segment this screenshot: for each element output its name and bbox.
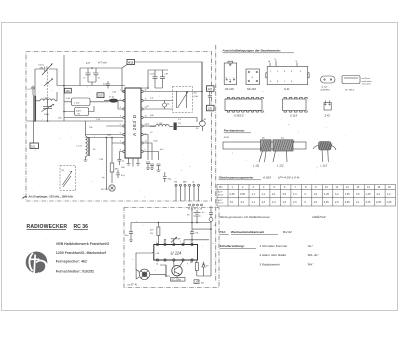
svg-text:101: 101 xyxy=(31,144,36,148)
boxed terminal 101 xyxy=(30,143,39,149)
svg-text:“RA- AL”: “RA- AL” xyxy=(307,253,320,257)
boxed label 125 xyxy=(207,105,215,111)
wire from label to cap rail xyxy=(122,65,127,69)
svg-text:1,35: 1,35 xyxy=(345,193,350,196)
variable capacitor C104 xyxy=(42,104,55,116)
IC package S41 outline xyxy=(266,59,309,91)
svg-text:4,5: 4,5 xyxy=(356,193,360,196)
svg-text:9: 9 xyxy=(145,150,146,152)
electrolytic right top xyxy=(209,206,217,229)
svg-text:Fernsprecher: 462: Fernsprecher: 462 xyxy=(56,260,87,264)
svg-text:2: 2 xyxy=(164,242,165,244)
svg-text:M38: M38 xyxy=(128,60,134,64)
svg-text:Bst 72: Bst 72 xyxy=(218,202,223,205)
svg-text:1,25: 1,25 xyxy=(387,201,392,204)
ground osc xyxy=(84,160,88,162)
resistor R32 right xyxy=(190,260,198,276)
oscillator coil L121 xyxy=(77,121,90,160)
svg-text:G: G xyxy=(252,77,254,79)
wire rail 3 xyxy=(184,240,209,245)
svg-text:einsetzen: einsetzen xyxy=(362,83,372,86)
F31 dashed frame xyxy=(124,208,219,288)
IF box 2407 xyxy=(75,108,89,116)
winding lead lines xyxy=(259,151,287,162)
tuner loop wires xyxy=(35,69,57,121)
svg-text:(Ob): (Ob) xyxy=(194,96,199,98)
terminal circles xyxy=(189,204,191,206)
winding L112 xyxy=(273,140,294,151)
svg-text:F 10: F 10 xyxy=(110,97,115,99)
svg-text:4,3: 4,3 xyxy=(262,201,266,204)
IC pins bottom xyxy=(156,259,158,261)
svg-text:5: 5 xyxy=(120,124,121,126)
transistor package SF126 outline xyxy=(224,61,237,91)
capacitor 22n xyxy=(103,81,110,89)
DIP package A283D outline xyxy=(225,97,263,117)
svg-text:A 283: A 283 xyxy=(262,176,271,180)
svg-text:“RA”: “RA” xyxy=(307,263,314,267)
buzzer B2 xyxy=(194,280,204,285)
scan curl mark xyxy=(23,197,28,199)
ferrite rod xyxy=(223,138,306,149)
svg-text:Schalterstellung:: Schalterstellung: xyxy=(220,244,245,248)
svg-text:Bst 62: Bst 62 xyxy=(218,193,223,196)
svg-text:6: 6 xyxy=(120,133,121,135)
svg-text:Ferritantenne:: Ferritantenne: xyxy=(224,129,245,133)
IF transformer dashed box xyxy=(173,86,199,112)
pin numbers IC right xyxy=(145,90,147,152)
svg-text:2 Alarm über Radio: 2 Alarm über Radio xyxy=(259,253,287,257)
varactor circle xyxy=(163,101,171,110)
resistor R31 xyxy=(150,223,160,245)
svg-text:Bst 62: Bst 62 xyxy=(283,230,292,234)
junction dots sub xyxy=(158,222,160,224)
svg-text:4,25: 4,25 xyxy=(324,201,329,204)
IC U114 body xyxy=(154,243,198,261)
svg-text:1,25: 1,25 xyxy=(324,193,329,196)
boxed label 124 xyxy=(207,86,215,92)
wire long vertical xyxy=(63,55,65,121)
svg-text:4,15: 4,15 xyxy=(366,201,371,204)
svg-text:2,45: 2,45 xyxy=(230,193,235,196)
transistor T1 xyxy=(101,185,115,191)
wires IC right connections xyxy=(143,91,202,93)
svg-text:2,1: 2,1 xyxy=(356,201,360,204)
svg-text:F31:: F31: xyxy=(220,230,226,234)
svg-text:105: 105 xyxy=(98,94,103,98)
svg-text:1: 1 xyxy=(120,90,121,92)
svg-text:10: 10 xyxy=(145,141,147,143)
svg-text:Fernschreiber: 016252: Fernschreiber: 016252 xyxy=(56,270,94,274)
capacitor C121 xyxy=(160,70,169,88)
svg-text:1,15: 1,15 xyxy=(366,193,371,196)
svg-text:Uᵁ= 4,5V ± 5 %: Uᵁ= 4,5V ± 5 % xyxy=(278,176,300,180)
svg-text:Anschlußbelegungen der Bauelem: Anschlußbelegungen der Bauelemente: xyxy=(222,49,281,53)
svg-text:C120: C120 xyxy=(150,74,156,76)
wire osc rail xyxy=(86,138,124,191)
wire right vertical xyxy=(197,229,211,276)
svg-text:mit Nase: mit Nase xyxy=(362,77,371,80)
transistor SC236d xyxy=(171,261,186,281)
svg-text:13: 13 xyxy=(145,116,147,118)
wires speaker xyxy=(136,252,166,274)
wires to IF boxes xyxy=(64,102,109,112)
variable inductor L101 arrow xyxy=(44,79,53,87)
pot arrow above pin3 xyxy=(171,237,181,244)
svg-text:2,35: 2,35 xyxy=(376,201,381,204)
svg-text:A 283 D: A 283 D xyxy=(233,114,244,118)
gang dashed link xyxy=(47,72,49,104)
svg-text:cu 07- 41: cu 07- 41 xyxy=(128,284,139,287)
coil L113 xyxy=(313,142,336,163)
svg-text:2: 2 xyxy=(120,99,121,101)
capacitor C120 xyxy=(150,70,158,88)
svg-text:11: 11 xyxy=(145,134,147,136)
transistor T2 right xyxy=(200,121,206,131)
connector pin row Kl xyxy=(174,181,200,202)
svg-text:124: 124 xyxy=(208,87,213,91)
IC bottom stubs xyxy=(129,158,139,167)
wire mid rail xyxy=(57,85,125,87)
svg-text:SC 786 d: SC 786 d xyxy=(345,90,355,92)
diode D31 xyxy=(202,262,209,272)
svg-text:9: 9 xyxy=(187,264,188,266)
DIP package U114 outline xyxy=(283,97,308,117)
wire bottom rail xyxy=(160,265,170,276)
svg-text:1: 1 xyxy=(156,242,157,244)
capacitor 1n mid xyxy=(117,154,125,165)
capacitor C32 with ground xyxy=(125,223,133,242)
svg-text:1,1: 1,1 xyxy=(252,201,256,204)
HFO logo xyxy=(26,251,48,273)
capacitor C110 xyxy=(83,68,91,82)
capacitors under IC xyxy=(146,162,161,170)
svg-text:SF 115: SF 115 xyxy=(101,189,109,191)
coil L102 bumps xyxy=(35,98,57,101)
coil L124 bumps xyxy=(150,123,173,126)
svg-text:L 112: L 112 xyxy=(277,164,284,168)
ground symbols under IC xyxy=(146,168,150,170)
svg-text:4,4: 4,4 xyxy=(272,201,276,204)
svg-text:2407: 2407 xyxy=(76,111,82,113)
package Z42 outline xyxy=(324,101,332,118)
boxed label M38 xyxy=(127,60,135,65)
svg-text:A277: A277 xyxy=(218,191,222,194)
capacitor C111 xyxy=(94,68,101,82)
filter F101 dark lens xyxy=(104,97,124,103)
svg-text:U 114: U 114 xyxy=(290,114,297,118)
svg-text:L 121: L 121 xyxy=(77,146,83,148)
IC pins left xyxy=(123,90,125,92)
svg-text:4,35: 4,35 xyxy=(345,201,350,204)
svg-text:L 102: L 102 xyxy=(43,98,49,100)
boxed label 140 xyxy=(65,88,72,93)
svg-text:Q 121: Q 121 xyxy=(322,87,329,89)
main schematic dash-dot frame xyxy=(26,52,212,202)
svg-text:1,1: 1,1 xyxy=(262,193,266,196)
svg-text:Kw: Kw xyxy=(281,138,284,140)
svg-text:4,2: 4,2 xyxy=(335,193,339,196)
wires IC left connections xyxy=(64,109,123,152)
svg-text:L 124: L 124 xyxy=(157,123,163,125)
svg-text:VEB Halbleiterwerk Frankfurt/O: VEB Halbleiterwerk Frankfurt/O xyxy=(56,242,110,246)
svg-text:3: 3 xyxy=(120,107,121,109)
svg-text:4,1: 4,1 xyxy=(272,193,276,196)
quartz package 4,43 MHz xyxy=(321,76,336,92)
svg-text:S 41: S 41 xyxy=(284,87,290,91)
svg-text:0,65: 0,65 xyxy=(240,193,245,196)
svg-text:2,3: 2,3 xyxy=(293,201,297,204)
battery 9V xyxy=(187,210,205,223)
svg-text:Weckautomatikeinsatz: Weckautomatikeinsatz xyxy=(231,230,265,234)
wire lower right xyxy=(177,125,200,127)
dashed pot box xyxy=(60,166,76,191)
svg-text:3 Radiobetrieb: 3 Radiobetrieb xyxy=(260,263,280,267)
svg-text:nach oben: nach oben xyxy=(362,81,373,83)
winding L111 xyxy=(261,140,272,151)
wire rail 2 xyxy=(192,228,211,230)
polarized capacitor 47u lower xyxy=(163,172,172,182)
svg-text:L 212: L 212 xyxy=(74,102,80,104)
svg-text:140: 140 xyxy=(65,89,70,93)
svg-text:A277: A277 xyxy=(218,199,222,202)
wire top rail xyxy=(131,222,211,224)
IC pins right xyxy=(141,90,143,92)
capacitor right edge xyxy=(208,91,212,105)
variable capacitor C101 xyxy=(39,64,53,76)
svg-text:SC 236d: SC 236d xyxy=(172,278,182,281)
svg-text:SF 126: SF 126 xyxy=(225,87,234,91)
svg-text:1,1: 1,1 xyxy=(252,193,256,196)
svg-text:1,3: 1,3 xyxy=(293,193,297,196)
resistor R 680 xyxy=(110,138,119,184)
svg-text:3,6: 3,6 xyxy=(314,201,318,204)
svg-text:1,2: 1,2 xyxy=(387,193,391,196)
svg-text:125: 125 xyxy=(208,107,213,111)
svg-text:140p: 140p xyxy=(44,114,50,116)
svg-text:2,6: 2,6 xyxy=(335,201,339,204)
junction dots xyxy=(201,91,203,93)
svg-text:2,2: 2,2 xyxy=(241,201,245,204)
voltage table xyxy=(217,185,396,207)
wire cap cluster xyxy=(125,70,168,88)
svg-text:16: 16 xyxy=(145,90,147,92)
svg-text:U 114: U 114 xyxy=(171,251,183,256)
svg-text:L 113: L 113 xyxy=(321,164,328,168)
svg-text:A 283 D: A 283 D xyxy=(132,114,138,136)
IC A283D body xyxy=(123,88,143,158)
svg-text:L 111: L 111 xyxy=(253,164,260,168)
svg-text:4,5: 4,5 xyxy=(283,193,287,196)
svg-text:1200 Frankfurt/O- Markendorf: 1200 Frankfurt/O- Markendorf xyxy=(56,251,107,255)
svg-text:BM: BM xyxy=(183,182,186,184)
transistor package SS216 outline xyxy=(246,69,260,91)
svg-text:14: 14 xyxy=(156,264,158,266)
svg-text:4: 4 xyxy=(120,116,121,118)
thick antenna rod segment xyxy=(34,96,36,121)
svg-text:Pin: Pin xyxy=(219,186,223,189)
svg-text:1,5: 1,5 xyxy=(283,201,287,204)
svg-text:Werte gemessen mit Vielfachmes: Werte gemessen mit Vielfachmesser xyxy=(220,215,271,219)
svg-text:7: 7 xyxy=(190,242,191,244)
wire pin2 stub xyxy=(164,240,166,244)
svg-text:1,6: 1,6 xyxy=(314,193,318,196)
wire cap bottom joining xyxy=(88,82,96,86)
IF box L212 xyxy=(72,98,91,106)
wire bottom rail left xyxy=(27,120,124,122)
speaker xyxy=(136,269,150,279)
right panel separator dashed line xyxy=(215,45,217,281)
wire tuner verticals xyxy=(35,92,57,121)
svg-text:10kΩ/Volt: 10kΩ/Volt xyxy=(312,215,326,219)
svg-text:4%: 4% xyxy=(194,93,197,95)
svg-text:4,7 mA: 4,7 mA xyxy=(98,61,107,65)
svg-text:4,43 MHz: 4,43 MHz xyxy=(321,89,331,92)
capacitor C103 left xyxy=(28,86,36,96)
svg-text:5%: 5% xyxy=(150,233,153,235)
filter package SC786 xyxy=(342,76,373,92)
wire top rail to right xyxy=(135,61,203,63)
svg-text:8: 8 xyxy=(120,150,121,152)
vertical feed wire xyxy=(191,206,193,229)
svg-text:1M: 1M xyxy=(174,182,177,184)
svg-text:2,5: 2,5 xyxy=(85,61,90,65)
pin numbers IC left xyxy=(120,90,121,152)
svg-text:4,0: 4,0 xyxy=(377,193,381,196)
electrolytic dark xyxy=(174,123,177,131)
svg-text:5: 5 xyxy=(180,242,181,244)
IC pins top xyxy=(156,243,158,245)
wire antenna drop xyxy=(33,95,35,143)
svg-text:7: 7 xyxy=(120,141,121,143)
svg-text:1 Normaler Summer: 1 Normaler Summer xyxy=(260,244,289,248)
svg-text:Als Empfänger: 153 kHz...1560: Als Empfänger: 153 kHz...1560 kHz xyxy=(28,195,74,199)
wire cap rail xyxy=(80,68,125,92)
svg-text:Z 42: Z 42 xyxy=(324,114,331,118)
scan speckle noise xyxy=(32,51,373,282)
svg-text:15: 15 xyxy=(145,99,147,101)
svg-text:M 38: M 38 xyxy=(224,137,230,139)
pin numbers U114 xyxy=(156,242,191,266)
boxed label 105 xyxy=(97,93,104,98)
svg-text:SS 216: SS 216 xyxy=(247,87,256,91)
polarized capacitor 47u xyxy=(116,170,125,178)
svg-text:Gleichspannungswerte:: Gleichspannungswerte: xyxy=(219,176,254,180)
svg-text:5,1: 5,1 xyxy=(230,201,234,204)
svg-text:“AL”: “AL” xyxy=(307,244,314,248)
capacitor C31 xyxy=(190,229,199,244)
